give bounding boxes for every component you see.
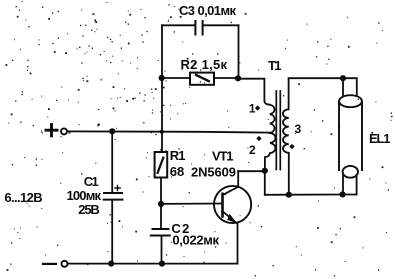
svg-text:3: 3 [295,122,302,136]
lamp EL1 top leads [343,78,357,96]
node junction lamp bottom [340,191,346,197]
wire R2 row left [162,77,190,79]
node junction base [158,201,164,207]
transistor VT1 emitter arrowhead [227,214,237,224]
wire base node to C2 [160,204,162,229]
transformer T1 winding 3 [283,79,289,195]
lamp EL1 bottom leads [343,175,357,195]
capacitor C3 [195,21,202,35]
terminal minus circle [62,261,68,267]
resistor R1 [155,152,168,178]
transformer T1 winding 1 [264,101,274,133]
svg-text:R2 1,5к: R2 1,5к [181,57,228,72]
wire R1 bottom lead to base node [160,178,162,204]
wire plus supply bus [67,131,269,132]
capacitor C2 plates [151,229,170,236]
wire top loop left segment [162,24,195,26]
capacitor C1 top lead [111,131,113,193]
wire R2 node to winding1 top [239,79,265,101]
node junction R2-left [159,75,165,81]
svg-text:1: 1 [249,102,256,116]
winding 2 polarity dot [256,136,261,141]
svg-text:2N5609: 2N5609 [191,165,236,180]
svg-text:6...12В: 6...12В [4,190,42,205]
node junction C2 bottom [159,261,165,267]
node junction C1 bottom [108,261,114,267]
wire collector node down to secondary bottom [264,171,266,195]
capacitor C1 plates [104,193,123,200]
wire right vertical C3 to R2 [238,25,240,78]
terminal plus circle [61,128,67,134]
svg-text:EL1: EL1 [369,131,391,146]
svg-text:T1: T1 [268,58,282,73]
wire secondary top bus [289,77,356,79]
transistor VT1 collector stroke [223,171,239,195]
svg-text:68: 68 [170,164,185,179]
wire bottom ground bus [68,263,238,265]
wire secondary bottom bus [265,194,357,196]
transformer T1 winding 2 [265,133,276,171]
svg-text:C3 0,01мк: C3 0,01мк [179,3,236,18]
terminal minus sign [43,263,56,265]
wire emitter down [237,224,239,264]
svg-text:100мк: 100мк [67,188,102,203]
wire C2 bottom lead [161,236,163,264]
svg-text:R1: R1 [170,148,186,163]
wire R2 row right [214,77,239,79]
node junction collector-winding2 [262,168,268,174]
node junction C1 tap [109,128,115,134]
svg-text:C1: C1 [84,174,99,189]
wire collector to winding2 node [238,170,265,172]
wire top loop right segment [203,24,239,26]
capacitor C1 bottom lead [111,200,113,264]
transformer T1 core [276,91,280,170]
transistor VT1 emitter stroke with arrow [223,211,238,223]
winding 1 polarity dot [255,105,260,110]
node junction lamp top [340,75,346,81]
winding 3 polarity dot [289,144,294,149]
lamp EL1 bottom electrode ellipse [343,166,358,178]
node junction winding3 bottom [286,192,292,198]
svg-text:25В: 25В [78,202,100,217]
svg-text:0,022мк: 0,022мк [172,233,219,248]
wire left vertical bus [161,25,163,152]
lamp EL1 tube body [339,102,362,171]
wire base horizontal [161,203,223,205]
terminal plus sign [46,125,57,136]
capacitor C1 polarity plus [115,185,120,190]
transistor VT1 base bar [221,194,224,217]
transistor VT1 circle [214,186,251,223]
svg-text:VT1: VT1 [212,149,234,164]
node junction bus-R1 crossing [160,130,164,134]
node junction R2-right [235,75,241,81]
resistor R2 [190,73,214,85]
svg-text:2: 2 [249,143,256,157]
lamp EL1 top electrode ellipse [339,95,362,107]
